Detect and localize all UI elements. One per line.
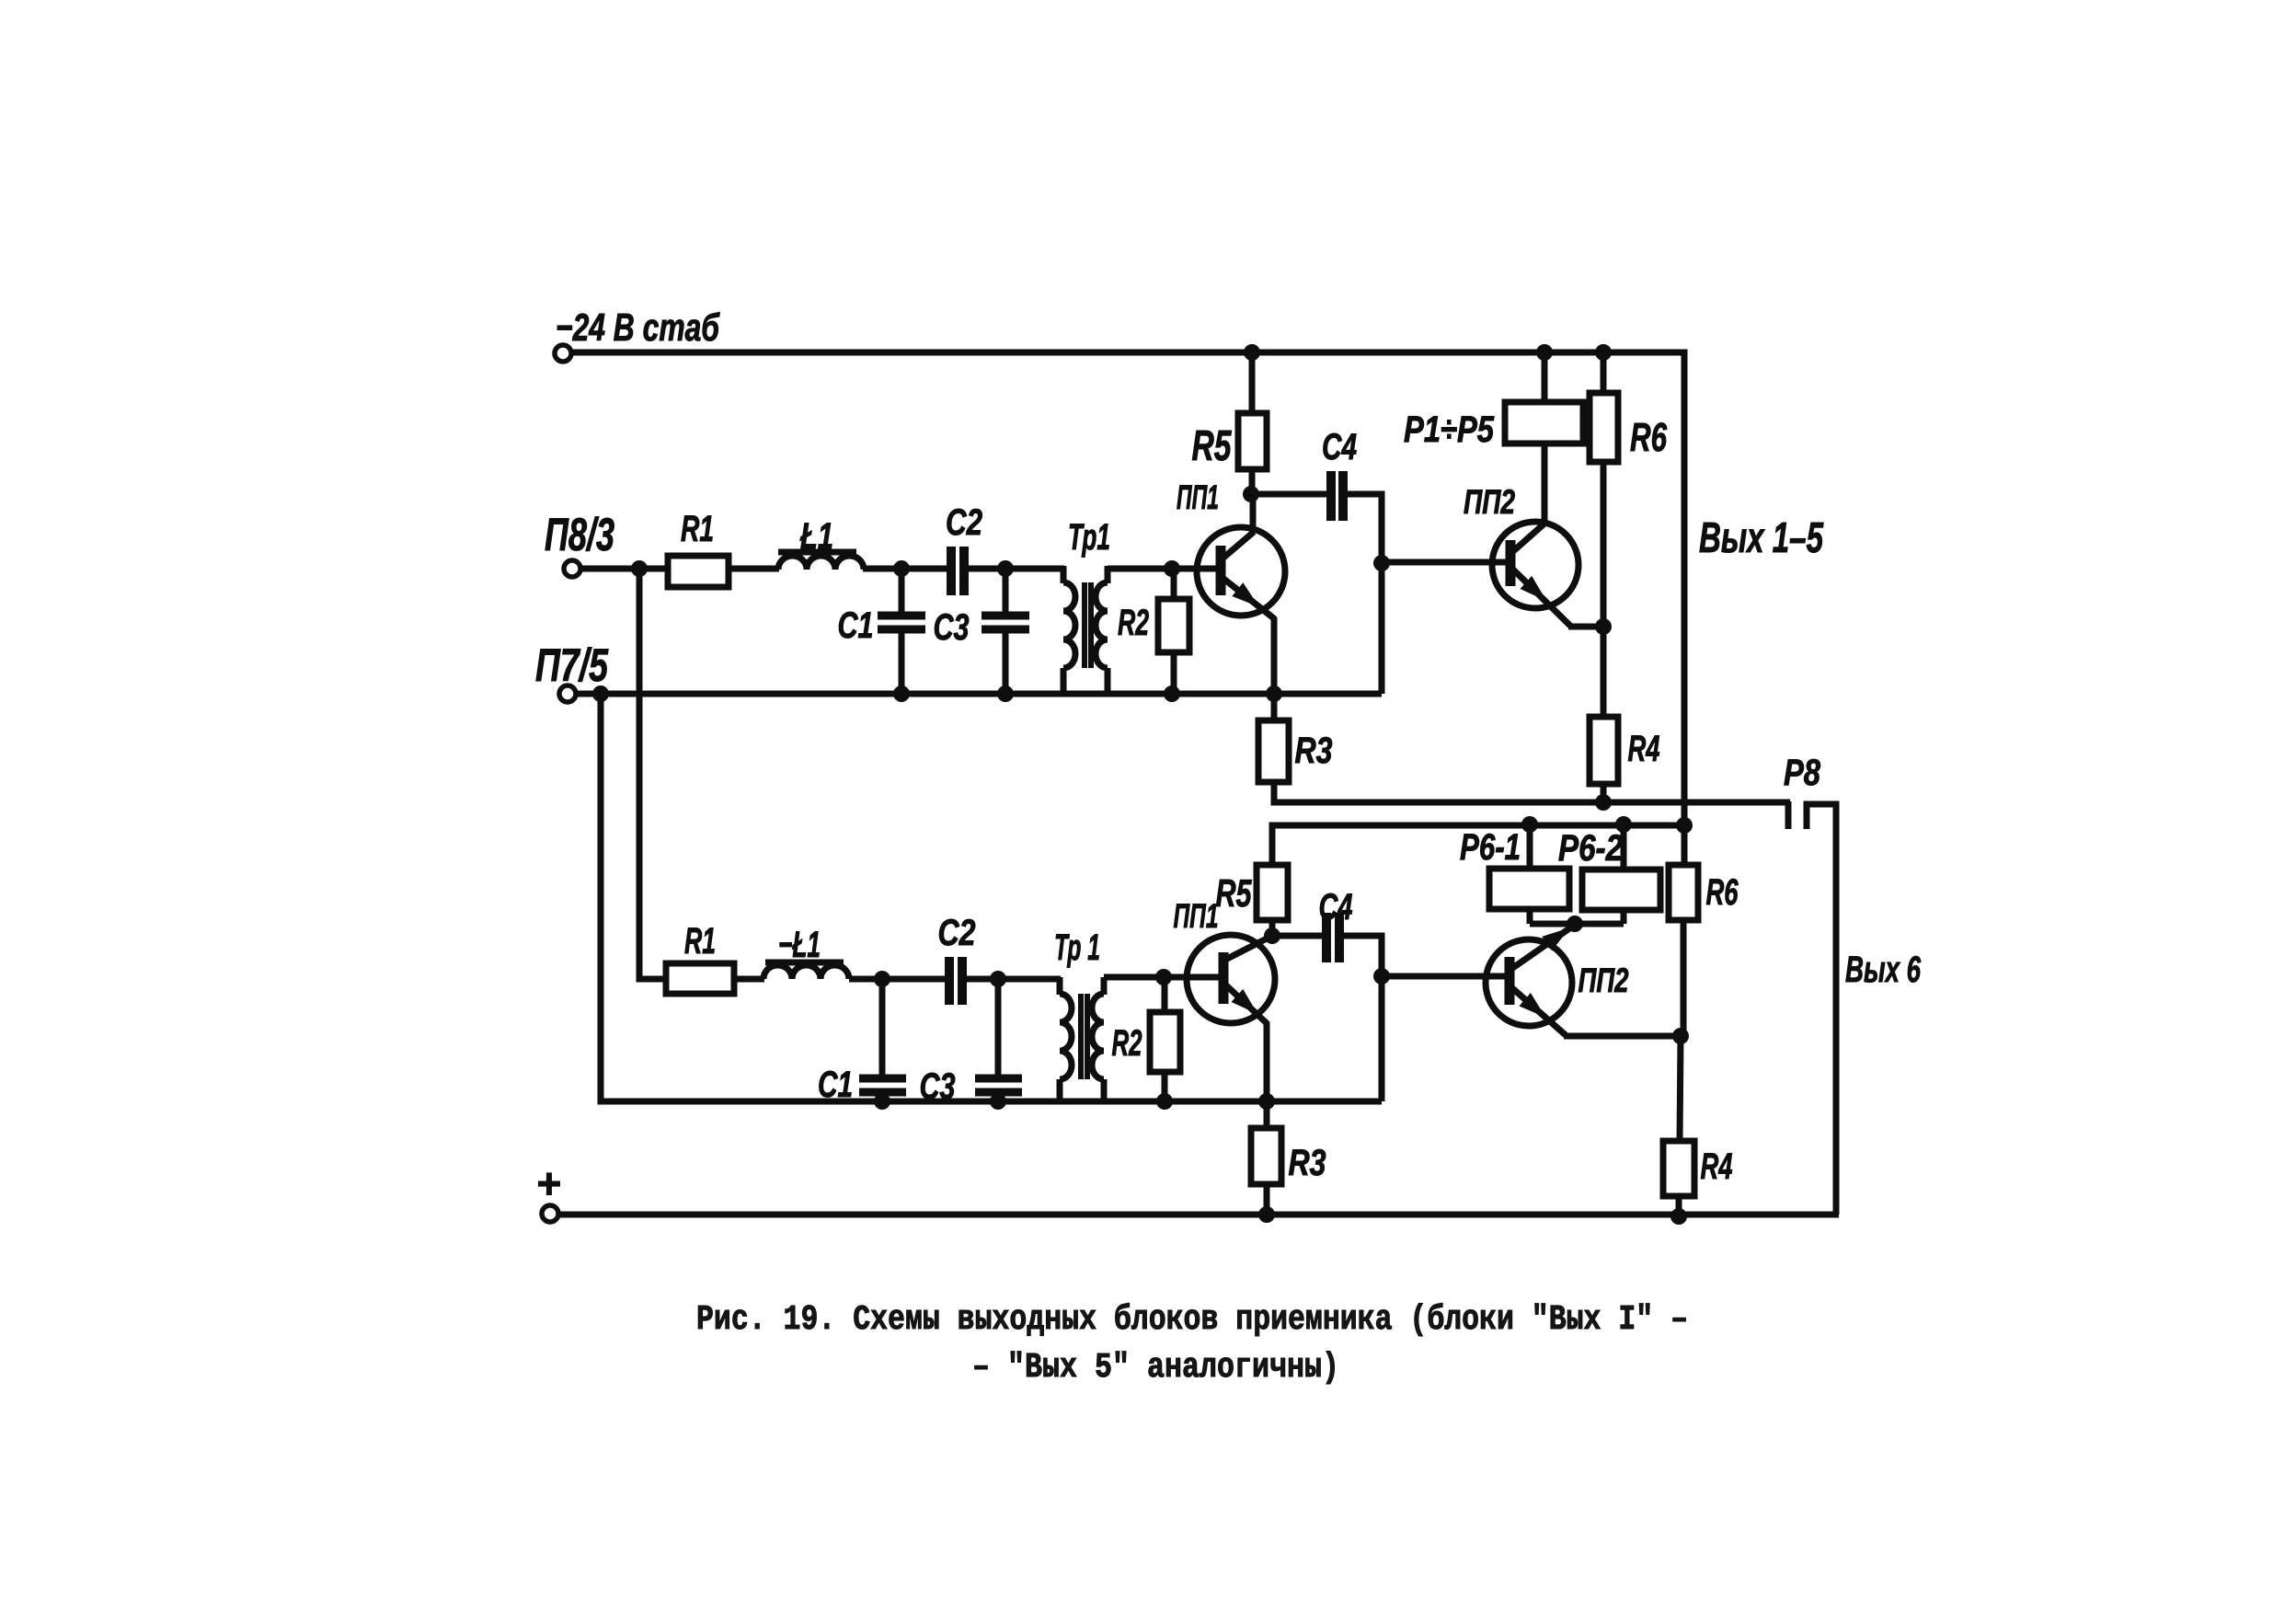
wire base ПП2-1 — [1382, 559, 1512, 566]
wire L1 to C2 block2 — [849, 976, 946, 983]
node R2 top — [1164, 560, 1180, 577]
wire secondary to base — [1108, 566, 1222, 572]
node C3 bottom block2 — [990, 1093, 1006, 1110]
node emitter ПП1-1 — [1266, 685, 1282, 702]
node R2 bottom — [1164, 685, 1180, 702]
svg-text:ПП1: ПП1 — [1174, 897, 1219, 935]
terminal -24V — [555, 345, 571, 362]
transformer Tr1 primary — [1063, 566, 1075, 696]
node C3 bottom — [997, 685, 1014, 702]
resistor R1 block2 — [666, 963, 734, 994]
capacitor C4 — [1331, 471, 1343, 521]
svg-text:+: + — [536, 1159, 561, 1207]
wire R3R4 rail — [1274, 782, 1790, 802]
svg-text:C3: C3 — [920, 1066, 956, 1107]
wire L1 to C2 — [863, 566, 947, 572]
label L1 block2 — [778, 925, 821, 965]
label R3 block2 — [1289, 1143, 1326, 1183]
relay coil Р1-Р5 — [1505, 352, 1583, 524]
label C1 block2 — [818, 1065, 853, 1105]
label C2 — [946, 502, 982, 543]
svg-text:R5: R5 — [1216, 871, 1252, 915]
capacitor C4 block2 — [1326, 913, 1339, 962]
svg-text:ПП2: ПП2 — [1578, 962, 1629, 999]
resistor R4 block2 — [1663, 1036, 1694, 1216]
node R6 top — [1595, 344, 1612, 361]
emitter arrow ПП2-2 — [1519, 993, 1551, 1024]
svg-text:Р1÷Р5: Р1÷Р5 — [1404, 409, 1495, 450]
contact Р8 and Вых 6 rail — [1788, 801, 1836, 1215]
wire -24V rail and Вых 1-5 rail — [571, 352, 1684, 825]
transformer Tr1 block2 core — [1081, 994, 1087, 1079]
node П7/5 branch — [592, 685, 609, 702]
label Р6-2 — [1558, 828, 1623, 869]
wire + rail — [558, 1212, 1839, 1218]
capacitor C2 block2 — [949, 957, 962, 1005]
wire relay bottom bus — [1530, 921, 1624, 927]
node C1 top — [893, 560, 910, 577]
svg-text:ПП2: ПП2 — [1464, 483, 1515, 521]
transformer Tr1 core — [1085, 582, 1091, 668]
transistor ПП2 block2 — [1486, 925, 1575, 1035]
svg-text:Вых 6: Вых 6 — [1845, 950, 1922, 990]
svg-text:Р6-2: Р6-2 — [1558, 828, 1623, 869]
resistor R2 block2 — [1150, 977, 1180, 1101]
transistor ПП1 block2 — [1187, 935, 1275, 1024]
label ПП1 block2 — [1174, 897, 1219, 935]
label R2 block2 — [1112, 1023, 1142, 1064]
resistor R6 block2 — [1669, 825, 1698, 1037]
node C1 top block2 — [874, 971, 890, 987]
svg-text:C1: C1 — [838, 605, 874, 646]
resistor R1 — [668, 556, 729, 587]
wire emitter ПП1-2 down — [1264, 1022, 1270, 1101]
label L1 — [799, 516, 833, 557]
node bus R6 — [1676, 817, 1693, 834]
relay coil Р6-2 — [1582, 824, 1660, 924]
label C3 — [934, 607, 970, 648]
label R3 block1 — [1295, 731, 1333, 771]
label Вых 1-5 — [1699, 513, 1824, 561]
capacitor C1 block2 — [859, 979, 906, 1101]
label ПП2 block1 — [1464, 483, 1515, 521]
svg-text:R1: R1 — [681, 509, 714, 549]
node C1 bottom block2 — [874, 1093, 890, 1110]
node R2 top block2 — [1155, 969, 1172, 985]
svg-text:R5: R5 — [1192, 421, 1233, 469]
wire C2 to Tr1 — [968, 566, 1064, 572]
label R6 block2 — [1706, 872, 1739, 913]
label R5 — [1192, 421, 1233, 469]
label C1 — [838, 605, 874, 646]
node collector R6 branch — [1595, 618, 1612, 635]
node R3 bottom block2 — [1258, 1206, 1275, 1223]
wire block1 bottom rail — [575, 691, 1382, 697]
svg-text:П7/5: П7/5 — [535, 639, 609, 691]
label R4 block1 — [1628, 729, 1660, 769]
label R4 block2 — [1701, 1146, 1733, 1187]
wire branch down to R1 block2 — [639, 569, 667, 979]
port label П7/5 — [535, 639, 609, 691]
svg-text:Ł1: Ł1 — [799, 516, 833, 557]
transformer Tr1 block2 primary — [1060, 977, 1072, 1103]
wire block2 top bus — [1272, 825, 1684, 866]
label Вых 6 — [1845, 950, 1922, 990]
label Р6-1 — [1460, 827, 1521, 868]
terminal + — [542, 1205, 558, 1222]
node bus Р6-2 — [1615, 816, 1632, 833]
node collector ПП2-2 — [1567, 916, 1583, 932]
label C2 block2 — [938, 913, 976, 953]
svg-text:R4: R4 — [1628, 729, 1660, 769]
wire branch П7/5 down and block2 bottom rail — [601, 694, 1382, 1101]
node emitter ПП1-2 — [1258, 1093, 1275, 1110]
node R2 bottom block2 — [1156, 1093, 1173, 1110]
label R2 — [1118, 603, 1149, 643]
resistor R3 block2 — [1251, 1101, 1281, 1215]
svg-text:C4: C4 — [1319, 887, 1353, 927]
node R5 bottom — [1243, 486, 1259, 502]
wire emitter ПП2-2 — [1564, 1033, 1681, 1040]
capacitor C2 — [951, 547, 964, 595]
node C1 bottom — [893, 685, 910, 702]
label R1 block2 — [684, 921, 716, 962]
label R6 block1 — [1630, 415, 1667, 460]
label Тр1 — [1068, 517, 1110, 558]
port label П8/3 — [545, 509, 614, 560]
svg-text:– "Вых 5" аналогичны): – "Вых 5" аналогичны) — [972, 1348, 1339, 1388]
label Р8 — [1784, 753, 1821, 793]
capacitor C1 — [878, 569, 925, 694]
svg-text:R2: R2 — [1112, 1023, 1142, 1064]
svg-text:Р8: Р8 — [1784, 753, 1821, 793]
relay coil Р6-1 — [1489, 824, 1569, 924]
label Р1÷Р5 — [1404, 409, 1495, 450]
svg-text:R4: R4 — [1701, 1146, 1733, 1187]
wire collector ПП1-1 up — [1250, 494, 1257, 533]
node R4 bottom block2 — [1670, 1208, 1687, 1225]
svg-text:Вых 1–5: Вых 1–5 — [1699, 513, 1824, 561]
emitter arrow ПП1-1 — [1232, 582, 1264, 614]
transistor ПП1 block1 — [1197, 527, 1285, 619]
capacitor C3 block2 — [975, 979, 1022, 1101]
svg-text:R2: R2 — [1118, 603, 1149, 643]
label + — [536, 1159, 561, 1207]
caption line 1 — [696, 1300, 1688, 1340]
wire C4 right block2 — [1343, 936, 1382, 1101]
terminal П7/5 — [559, 685, 576, 702]
label ПП1 — [1177, 478, 1219, 516]
emitter arrow ПП1-2 — [1231, 989, 1263, 1020]
wire base ПП2-2 — [1382, 973, 1511, 980]
svg-text:R6: R6 — [1630, 415, 1667, 460]
resistor R3 block1 — [1258, 694, 1289, 782]
inductor L1 — [778, 552, 864, 570]
node R5 top — [1244, 344, 1260, 361]
resistor R6 block1 — [1590, 352, 1618, 718]
svg-text:П8/3: П8/3 — [545, 509, 614, 560]
svg-text:Рис. 19. Схемы выходных блоков: Рис. 19. Схемы выходных блоков приемника… — [696, 1300, 1688, 1340]
label ПП2 block2 — [1578, 962, 1629, 999]
svg-text:C3: C3 — [934, 607, 970, 648]
node emitter R6 branch block2 — [1672, 1028, 1689, 1044]
svg-text:−24 В стаб: −24 В стаб — [556, 305, 720, 349]
node R5 bottom block2 — [1264, 927, 1280, 944]
node C3 top block2 — [990, 971, 1006, 987]
resistor R4 block1 — [1590, 717, 1618, 802]
node bus Р6-1 — [1521, 816, 1538, 833]
wire R1 to L1 block2 — [734, 976, 764, 983]
svg-text:R1: R1 — [684, 921, 716, 962]
node C3 top — [997, 560, 1014, 577]
inductor L1 block2 — [763, 962, 849, 979]
node base ПП2-2 — [1373, 968, 1390, 985]
node input branch — [631, 560, 648, 577]
wire emitter ПП1-1 down — [1271, 617, 1278, 694]
node R4 bottom — [1595, 794, 1612, 811]
power label -24 В стаб — [556, 305, 720, 349]
label C4 block2 — [1319, 887, 1353, 927]
capacitor C3 — [982, 569, 1029, 694]
label C3 block2 — [920, 1066, 956, 1107]
transistor ПП2 block1 — [1492, 522, 1578, 626]
svg-text:C2: C2 — [938, 913, 976, 953]
node P1-P5 top — [1536, 344, 1553, 361]
label Тр1 block2 — [1054, 927, 1100, 968]
wire secondary to base block2 — [1104, 974, 1223, 981]
svg-text:R6: R6 — [1706, 872, 1739, 913]
node base ПП2-1 — [1373, 555, 1390, 571]
resistor R5 block2 — [1257, 865, 1288, 938]
svg-text:C4: C4 — [1322, 427, 1357, 467]
svg-text:C2: C2 — [946, 502, 982, 543]
label R5 block2 — [1216, 871, 1252, 915]
emitter arrow ПП2-1 — [1520, 576, 1552, 607]
wire input to R1 — [580, 566, 669, 572]
wire R5node to C4 block2 — [1272, 933, 1323, 939]
svg-text:−Ł1: −Ł1 — [778, 925, 821, 965]
svg-text:Тр1: Тр1 — [1068, 517, 1110, 558]
resistor R5 — [1238, 352, 1267, 496]
svg-text:ПП1: ПП1 — [1177, 478, 1219, 516]
svg-text:R3: R3 — [1295, 731, 1333, 771]
wire R1 to L1 — [729, 566, 779, 572]
svg-text:C1: C1 — [818, 1065, 853, 1105]
caption line 2 — [972, 1348, 1339, 1388]
wire C4 right — [1347, 494, 1382, 694]
resistor R2 — [1158, 569, 1189, 694]
label R1 — [681, 509, 714, 549]
wire emitter ПП2-1 — [1568, 624, 1603, 630]
collector arrow ПП2-2 — [1542, 921, 1574, 951]
terminal П8/3 — [564, 560, 580, 577]
label C4 — [1322, 427, 1357, 467]
svg-text:Р6-1: Р6-1 — [1460, 827, 1521, 868]
transformer Tr1 block2 secondary — [1092, 977, 1104, 1103]
wire C2 to Tr1 block2 — [966, 976, 1061, 983]
wire R5node to C4 — [1251, 491, 1327, 498]
svg-text:Тр 1: Тр 1 — [1054, 927, 1100, 968]
svg-text:R3: R3 — [1289, 1143, 1326, 1183]
transformer Tr1 secondary — [1096, 566, 1108, 696]
